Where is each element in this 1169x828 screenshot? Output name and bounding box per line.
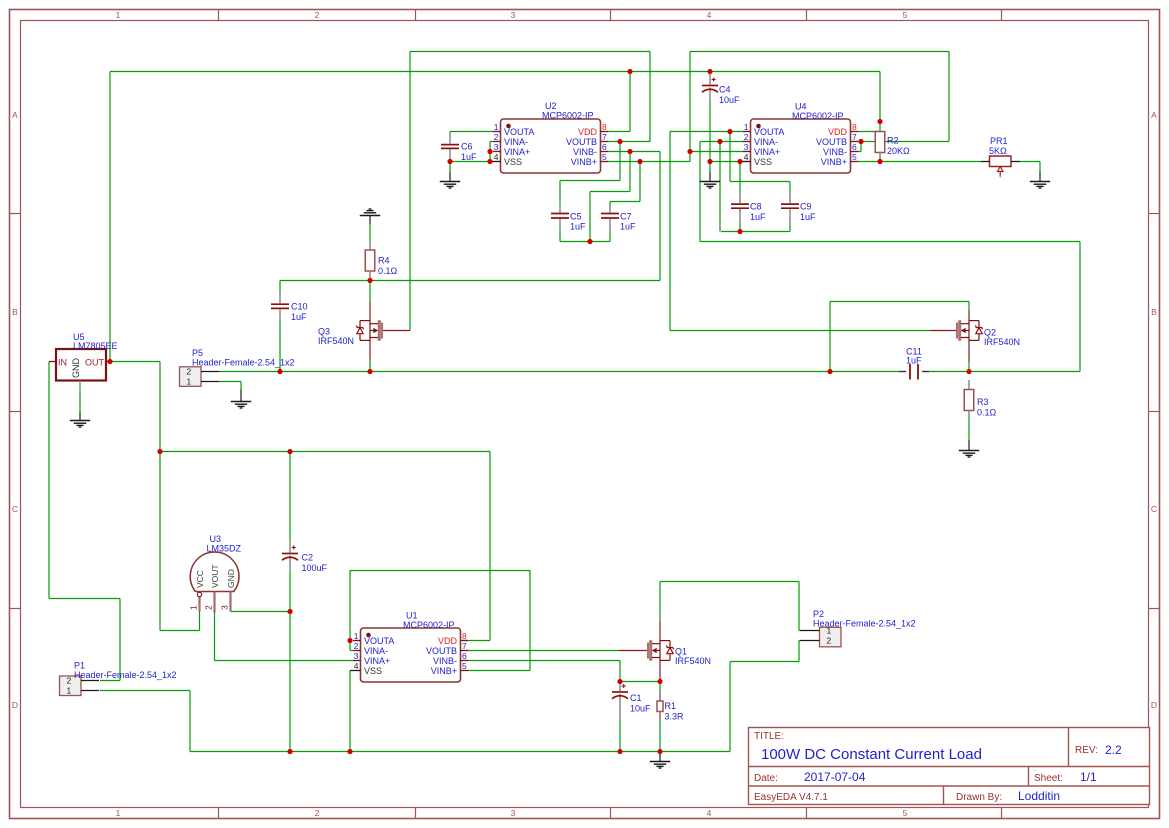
wire [289,572,291,752]
svg-text:VINB-: VINB- [433,656,457,666]
svg-text:IRF540N: IRF540N [675,656,711,666]
svg-text:IRF540N: IRF540N [318,336,354,346]
svg-text:D: D [1151,700,1157,710]
wire [739,209,741,213]
wire [279,322,281,372]
wire [280,280,660,282]
svg-text:B: B [1151,307,1157,317]
svg-text:VINB+: VINB+ [821,157,847,167]
wire [968,302,970,311]
svg-text:C5: C5 [570,211,582,221]
label P2 [813,609,916,629]
svg-text:VOUTA: VOUTA [504,127,534,137]
wire [240,382,242,390]
transistor Q3 [356,320,410,341]
wire [619,720,621,752]
svg-text:VOUTA: VOUTA [364,636,394,646]
svg-text:Date:: Date: [754,773,778,784]
transistor Q2 [931,320,983,341]
svg-text:VINB-: VINB- [823,147,847,157]
svg-text:VOUT: VOUT [210,564,220,588]
svg-text:A: A [1151,110,1157,120]
wire [660,581,799,583]
svg-text:2: 2 [827,636,832,646]
junction [157,449,162,454]
capacitor C6 [441,133,459,160]
svg-text:4: 4 [744,152,749,162]
wire [879,157,881,162]
wire [219,381,241,383]
wire [609,202,611,207]
svg-text:8: 8 [462,631,467,641]
wire [948,52,950,142]
svg-text:2017-07-04: 2017-07-04 [804,770,866,784]
capacitor C8 [731,192,749,224]
wire [1079,242,1081,372]
junction [617,139,622,144]
ground (U5) [70,421,90,428]
wire [529,571,531,671]
label U4 [792,102,844,122]
wire [619,682,621,684]
svg-text:EasyEDA V4.7.1: EasyEDA V4.7.1 [754,792,828,803]
svg-text:IRF540N: IRF540N [984,337,1020,347]
label R2 [887,136,910,156]
junction [858,139,863,144]
svg-text:1/1: 1/1 [1080,770,1097,784]
svg-text:1uF: 1uF [800,212,816,222]
wire [199,612,201,631]
wire [190,751,730,753]
temperature sensor U3 LM35DZ [189,552,239,612]
svg-text:4: 4 [707,808,712,818]
junction [347,749,352,754]
svg-text:VDD: VDD [828,127,848,137]
junction [827,369,832,374]
wire [219,371,899,373]
ground (R4, flipped) [360,209,380,216]
wire [629,152,631,192]
svg-text:0.1Ω: 0.1Ω [378,266,398,276]
wire [659,582,661,622]
wire [649,52,651,142]
wire [369,361,371,372]
wire [730,661,799,663]
wire [449,170,451,173]
svg-text:VINA+: VINA+ [754,147,780,157]
junction [657,679,662,684]
svg-text:7: 7 [852,132,857,142]
wire [829,302,831,372]
svg-text:1uF: 1uF [461,152,477,162]
resistor R1 lead bottom [659,712,661,722]
svg-text:1uF: 1uF [620,222,636,232]
transistor Q2 source lead [968,340,970,362]
wire [608,141,651,143]
junction [737,229,742,234]
wire [490,161,493,163]
svg-text:3: 3 [744,142,749,152]
svg-text:3: 3 [220,605,230,610]
wire [350,650,353,652]
ground (R3) [959,451,979,458]
transistor Q3 source lead [369,340,371,360]
wire [968,440,970,451]
wire [215,660,354,662]
svg-text:VSS: VSS [364,666,382,676]
svg-text:100W DC Constant Current Load: 100W DC Constant Current Load [761,746,982,763]
wire [879,72,881,132]
wire [709,172,711,182]
svg-text:1: 1 [744,122,749,132]
resistor R2 lead bottom [879,152,881,157]
transistor Q2 drain lead [968,311,970,321]
label C9 [800,202,816,222]
svg-text:2: 2 [315,808,320,818]
transistor Q1 source lead [659,660,661,681]
svg-text:Sheet:: Sheet: [1034,773,1063,784]
svg-text:R2: R2 [887,136,899,146]
junction [687,149,692,154]
wire [690,51,949,53]
svg-text:1: 1 [494,122,499,132]
wire [450,131,493,133]
label C11 [906,347,922,366]
wire [699,142,701,242]
svg-text:3: 3 [511,10,516,20]
wire [449,172,451,182]
wire [589,192,591,242]
transistor Q1 drain lead [659,622,661,641]
wire [929,371,1080,373]
svg-text:Header-Female-2.54_1x2: Header-Female-2.54_1x2 [192,358,295,368]
junction [627,149,632,154]
label C7 [620,211,636,231]
svg-text:B: B [12,307,18,317]
svg-text:3.3R: 3.3R [665,711,685,721]
wire [109,72,111,362]
svg-text:2: 2 [67,676,72,686]
wire [609,231,611,242]
svg-text:4: 4 [494,152,499,162]
svg-text:3: 3 [511,808,516,818]
wire [729,662,731,752]
wire [289,452,291,541]
wire [560,241,610,243]
wire [49,598,120,600]
label R4 [378,256,398,276]
ground (PR1) [1030,182,1050,189]
wire [639,162,641,202]
label C2 [302,553,328,573]
wire [858,161,982,163]
svg-text:Q2: Q2 [984,328,996,338]
wire [189,691,191,752]
svg-text:A: A [12,110,18,120]
wire [119,599,121,681]
wire [690,151,745,153]
svg-text:8: 8 [852,122,857,132]
transistor Q3 drain lead [369,302,371,321]
svg-text:1uF: 1uF [750,212,766,222]
svg-text:C8: C8 [750,202,762,212]
wire [669,132,671,331]
wire [467,670,530,672]
junction [367,369,372,374]
wire [659,152,661,281]
wire [489,142,491,162]
wire [1039,162,1041,172]
junction [627,69,632,74]
svg-text:D: D [12,700,18,710]
wire [369,216,371,225]
wire [231,611,291,613]
svg-text:TITLE:: TITLE: [754,731,784,742]
svg-text:1uF: 1uF [570,222,586,232]
svg-text:3: 3 [494,142,499,152]
junction [287,449,292,454]
svg-text:IN: IN [58,358,67,368]
op-amp U2 [493,119,608,173]
svg-text:5: 5 [602,152,607,162]
svg-text:Q3: Q3 [318,327,330,337]
wire [710,161,740,163]
svg-text:4: 4 [354,661,359,671]
svg-text:VSS: VSS [504,157,522,167]
svg-text:5: 5 [903,808,908,818]
svg-text:C9: C9 [800,202,812,212]
wire [349,671,351,752]
resistor R3 [964,390,974,411]
wire [450,161,490,163]
ground (P5) [231,402,251,409]
svg-text:VINA-: VINA- [504,137,528,147]
ground (bottom rail) [650,762,670,769]
junction [877,119,882,124]
svg-text:GND: GND [71,358,81,379]
svg-text:100uF: 100uF [302,563,328,573]
capacitor C10 [271,293,289,323]
wire [608,161,691,163]
svg-text:U1: U1 [406,611,418,621]
wire [739,223,741,232]
label Q1 [675,647,711,667]
svg-text:GND: GND [226,569,236,588]
wire [160,630,200,632]
wire [629,72,631,132]
wire [350,670,353,672]
wire [590,191,630,193]
svg-text:Lodditin: Lodditin [1018,789,1060,803]
frame column labels bottom [116,808,908,818]
svg-text:C4: C4 [719,85,731,95]
wire [610,201,640,203]
wire [1039,172,1041,182]
label Q3 [318,327,354,347]
svg-text:Header-Female-2.54_1x2: Header-Female-2.54_1x2 [74,670,177,680]
svg-text:VINA-: VINA- [754,137,778,147]
wire [789,223,791,232]
svg-text:3: 3 [354,651,359,661]
label P1 [74,661,177,681]
wire [719,142,721,232]
svg-text:C: C [12,504,18,514]
label U2 [542,101,594,121]
svg-text:7: 7 [602,132,607,142]
svg-text:VINB-: VINB- [573,147,597,157]
svg-text:1: 1 [67,686,72,696]
junction [487,149,492,154]
wire [740,161,744,163]
resistor R4 [365,250,375,271]
wire [490,141,493,143]
svg-text:VOUTB: VOUTB [816,137,847,147]
svg-text:2: 2 [187,367,192,377]
wire [214,613,216,661]
wire [100,690,190,692]
svg-text:C: C [1151,504,1157,514]
wire [110,71,880,73]
wire [100,680,120,682]
svg-text:VINA+: VINA+ [364,656,390,666]
svg-text:LM35DZ: LM35DZ [207,544,242,554]
label U1 [403,611,455,631]
capacitor C7 [601,206,619,231]
junction [287,749,292,754]
wire [349,571,351,651]
svg-text:10uF: 10uF [719,95,740,105]
svg-text:1: 1 [187,377,192,387]
potentiometer PR1 [981,156,1020,178]
label P5 [192,348,295,368]
svg-text:6: 6 [852,142,857,152]
svg-text:5KΩ: 5KΩ [989,146,1007,156]
svg-text:1: 1 [116,10,121,20]
wire [789,182,791,193]
wire [369,281,371,303]
junction [347,638,352,643]
wire [968,362,970,372]
svg-text:5: 5 [462,661,467,671]
junction [447,159,452,164]
junction [707,69,712,74]
wire [700,141,745,143]
wire [659,721,661,752]
wire [689,152,691,162]
label PR1 [989,136,1008,156]
wire [830,301,969,303]
wire [409,52,411,331]
svg-text:PR1: PR1 [990,136,1008,146]
wire [858,131,881,133]
svg-text:Q1: Q1 [675,647,687,657]
op-amp U4 [743,119,858,173]
svg-text:10uF: 10uF [630,703,651,713]
svg-text:C1: C1 [630,693,642,703]
wire [798,582,800,631]
label C10 [291,302,308,322]
connector P2 [800,626,842,647]
junction [637,159,642,164]
label U5 [73,332,118,351]
junction [587,239,592,244]
svg-text:P2: P2 [813,609,824,619]
svg-text:U2: U2 [545,101,557,111]
svg-text:MCP6002-IP: MCP6002-IP [542,111,594,121]
wire [449,160,451,172]
wire [559,181,561,202]
svg-text:1: 1 [354,631,359,641]
svg-text:1: 1 [116,808,121,818]
junction [737,159,742,164]
resistor R1 lead top [659,691,661,701]
svg-text:OUT: OUT [85,358,105,368]
junction [277,369,282,374]
svg-text:2: 2 [204,605,214,610]
wire [700,241,1080,243]
svg-text:2: 2 [315,10,320,20]
label U3 [207,534,242,554]
capacitor C9 [781,192,799,223]
ground (U4 VSS) [700,182,720,189]
resistor R2 [875,132,885,153]
svg-text:VDD: VDD [578,127,598,137]
wire [467,650,619,652]
capacitor C2 (polarized) [282,541,298,572]
label C4 [719,85,740,105]
svg-text:R3: R3 [977,397,989,407]
svg-text:6: 6 [602,142,607,152]
svg-text:4: 4 [707,10,712,20]
svg-text:5: 5 [903,10,908,20]
wire [670,131,745,133]
wire [350,570,530,572]
wire [109,361,161,363]
svg-text:5: 5 [852,152,857,162]
frame row labels left [12,110,18,710]
wire [489,452,491,641]
svg-text:1: 1 [189,605,199,610]
svg-text:MCP6002-IP: MCP6002-IP [792,111,844,121]
wire [968,417,970,440]
wire [79,412,81,421]
svg-text:VOUTA: VOUTA [754,127,784,137]
wire [659,752,661,762]
svg-text:20KΩ: 20KΩ [887,146,910,156]
svg-text:VINB+: VINB+ [431,666,457,676]
wire [560,180,620,182]
junction [877,159,882,164]
junction [657,749,662,754]
wire [730,181,790,183]
wire [709,101,711,162]
svg-text:R1: R1 [665,701,677,711]
svg-text:REV:: REV: [1075,745,1098,756]
wire [721,231,790,233]
frame column labels top [116,10,908,20]
junction [107,359,112,364]
svg-text:VDD: VDD [438,636,458,646]
svg-text:R4: R4 [378,256,390,266]
resistor R4 lead bottom [369,271,371,281]
wire [619,661,621,682]
connector P5 [180,367,220,387]
wire [467,660,620,662]
junction [717,139,722,144]
svg-text:VINB+: VINB+ [571,157,597,167]
svg-text:Drawn By:: Drawn By: [956,792,1002,803]
svg-text:C7: C7 [620,211,632,221]
